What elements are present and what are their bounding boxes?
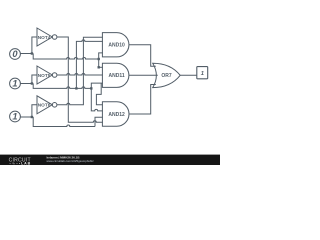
wire node A up to NOT4 input xyxy=(32,37,37,54)
or gate OR7 xyxy=(153,63,181,87)
svg-text:AND12: AND12 xyxy=(108,112,125,118)
inverter NOT6 xyxy=(37,96,57,114)
and gate AND12 xyxy=(102,102,129,126)
node C junction dot xyxy=(31,116,33,118)
svg-text:NOT5: NOT5 xyxy=(38,73,51,78)
svg-text:1: 1 xyxy=(12,79,17,89)
wire node B up to NOT5 input xyxy=(32,75,37,84)
wire IN0 to node A xyxy=(20,53,33,55)
svg-text:AND10: AND10 xyxy=(108,43,125,49)
wire C up into AND12 pin4 xyxy=(95,117,103,126)
svg-text:1: 1 xyxy=(12,112,17,122)
input node IN1 value 1 xyxy=(10,78,21,89)
wire AND10 output to OR7 top input xyxy=(129,45,156,67)
wire IN2 to node C xyxy=(20,116,33,118)
wire node C jog down and across with hop xyxy=(33,117,95,127)
wire B bus up to AND10 pin1 xyxy=(76,40,102,89)
wire B down into AND12 pin2 with hop xyxy=(91,88,103,111)
wire A bus down to AND11 pin1 xyxy=(98,59,100,67)
wire OR7 output to result box xyxy=(180,74,196,76)
node B2 junction dot xyxy=(75,87,77,89)
svg-text:NOT4: NOT4 xyxy=(38,35,51,40)
svg-text:–∿–▪LAB: –∿–▪LAB xyxy=(9,162,31,165)
wire AND12 output to OR7 bottom input xyxy=(129,85,156,115)
node A junction dot xyxy=(31,52,33,54)
input node IN2 value 1 xyxy=(10,111,21,122)
svg-text:NOT6: NOT6 xyxy=(38,103,51,108)
wire IN1 to node B xyxy=(20,83,33,85)
wire NOT5 output B' to AND11 pin2 with hops xyxy=(57,74,103,76)
node B junction dot xyxy=(31,82,33,84)
svg-text:1: 1 xyxy=(201,71,204,77)
footer bar xyxy=(0,155,220,165)
wire NOT4 output A' down bus to AND12 pin5 with hop xyxy=(57,37,103,122)
wire node C up to NOT6 input xyxy=(32,105,37,117)
output node result box value 1 xyxy=(197,67,208,79)
and gate AND10 xyxy=(102,33,129,57)
input node IN0 value 0 xyxy=(10,49,21,60)
and gate AND11 xyxy=(102,63,129,87)
svg-text:AND11: AND11 xyxy=(109,73,125,79)
node A3 junction dot xyxy=(98,66,100,68)
node B3 junction dot xyxy=(90,87,92,89)
svg-text:0: 0 xyxy=(12,49,18,59)
wire A up into AND10 pin3 xyxy=(99,53,103,59)
wire node A jog down and across with hops xyxy=(33,54,99,60)
wire A into AND11 pin1 xyxy=(99,66,103,68)
wire node B jog down and across with hops xyxy=(33,84,91,89)
wire NOT6 output C' up bus to AND10 pin2 with hops xyxy=(57,37,103,105)
CircuitLab logo wordmark xyxy=(9,157,32,165)
svg-text:OR7: OR7 xyxy=(161,73,172,79)
inverter NOT5 xyxy=(37,66,57,84)
inverter NOT4 xyxy=(37,28,57,46)
wire B up into AND11 pin3 with hop xyxy=(91,83,103,105)
svg-text:www.circuitlab.com/c/t25gsumpb: www.circuitlab.com/c/t25gsumpbsbtz xyxy=(47,159,95,163)
node A2 junction dot xyxy=(98,58,100,60)
wire AND11 output to OR7 middle input xyxy=(129,74,158,76)
